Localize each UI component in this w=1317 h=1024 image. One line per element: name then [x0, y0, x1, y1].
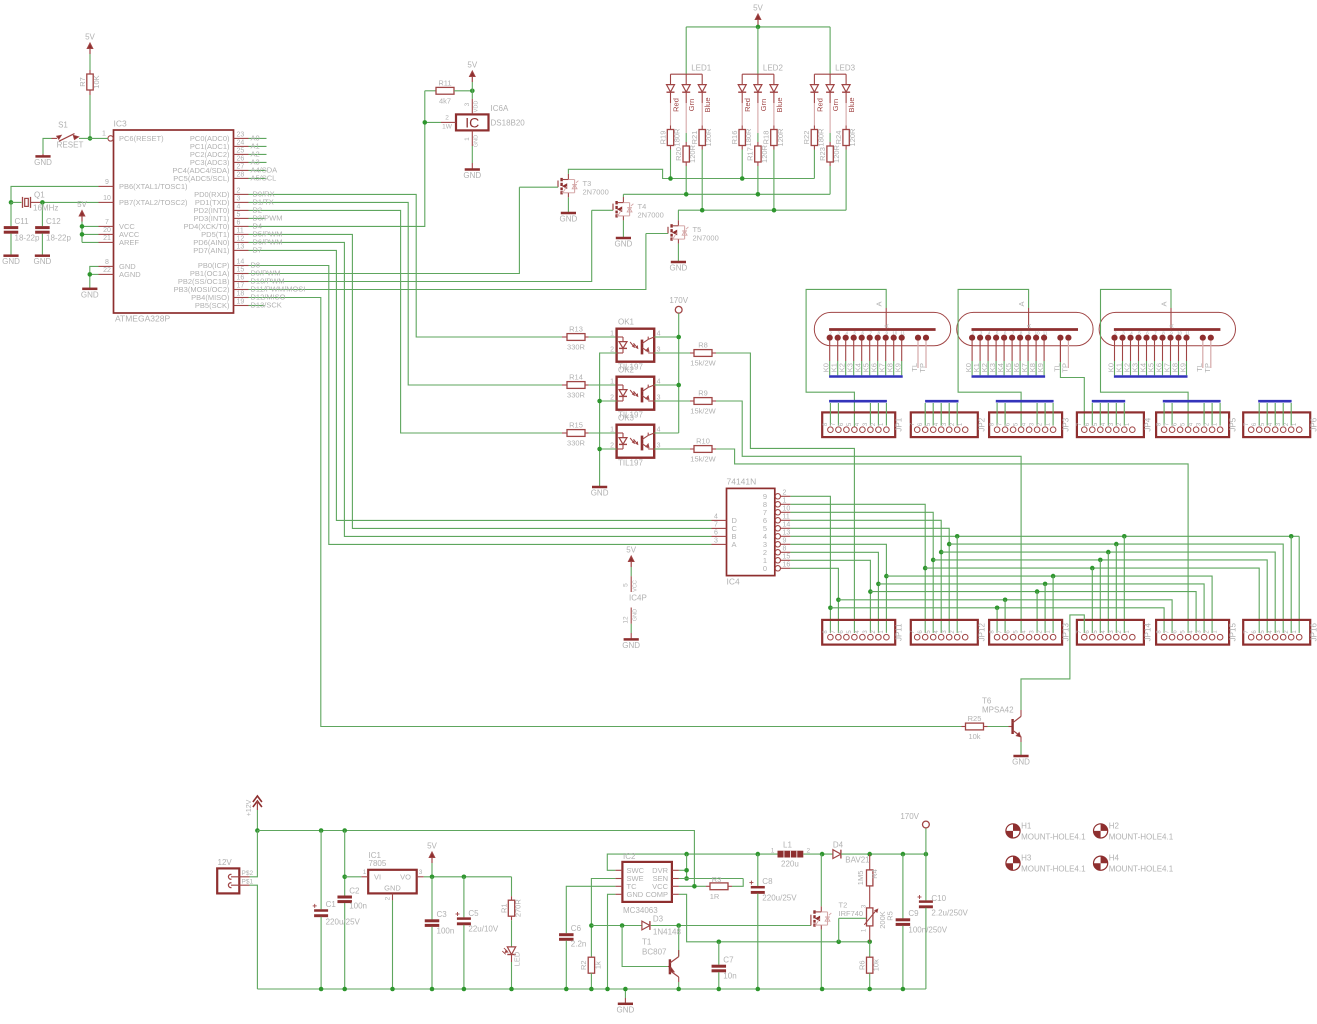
svg-text:Red: Red: [815, 98, 824, 112]
svg-text:1N4148: 1N4148: [653, 928, 682, 937]
wire RESET node to S1: [79, 137, 90, 139]
wire green LED bus to T4: [623, 193, 830, 195]
svg-text:10k: 10k: [872, 959, 881, 971]
svg-text:A: A: [1027, 324, 1033, 328]
svg-text:7805: 7805: [369, 859, 387, 868]
IC voltage regulator IC1 7805: [368, 870, 417, 894]
svg-text:6: 6: [839, 630, 845, 634]
IC3 pin 13 PD7(AIN1) net D7: [234, 249, 249, 251]
svg-text:6: 6: [237, 220, 241, 227]
svg-text:100n/250V: 100n/250V: [908, 926, 947, 935]
svg-text:8: 8: [823, 422, 829, 426]
svg-text:H3: H3: [1021, 854, 1032, 863]
svg-text:3: 3: [861, 904, 867, 908]
wire D9 to T3 gate: [249, 187, 520, 273]
svg-text:JP11: JP11: [895, 623, 904, 641]
bus JP2: [925, 400, 958, 403]
svg-text:3: 3: [942, 630, 948, 634]
svg-text:D7: D7: [253, 246, 263, 255]
wire OK2 pin3 to R9: [654, 400, 690, 402]
svg-text:6: 6: [1004, 331, 1007, 336]
svg-text:2: 2: [610, 394, 614, 401]
svg-text:4: 4: [657, 330, 661, 337]
svg-text:JP2: JP2: [977, 417, 986, 431]
svg-text:7: 7: [1165, 630, 1171, 634]
svg-text:R16: R16: [730, 131, 739, 145]
IC1 pin 3 VO: [417, 876, 424, 878]
svg-text:2: 2: [871, 422, 877, 426]
wire D8 to IC4 A: [249, 266, 712, 545]
ground GND (IC4P): [624, 638, 639, 641]
svg-text:3: 3: [1276, 422, 1282, 426]
svg-text:4: 4: [855, 630, 861, 634]
nixie tube 3 cathode pin K4: [1144, 335, 1149, 340]
svg-text:4: 4: [1101, 422, 1107, 426]
svg-text:6: 6: [918, 422, 924, 426]
svg-text:R6: R6: [858, 960, 867, 970]
svg-text:6: 6: [1173, 630, 1179, 634]
junction C10 top: [924, 852, 929, 857]
IC6A pin 2 1W: [441, 121, 456, 123]
ground GND (S1): [35, 155, 50, 158]
connector 12V input: [217, 868, 239, 893]
svg-text:R19: R19: [658, 131, 667, 145]
svg-text:120R: 120R: [760, 144, 769, 163]
svg-text:4: 4: [1022, 630, 1028, 634]
svg-text:3: 3: [1109, 630, 1115, 634]
mount hole H1: [1013, 824, 1020, 831]
svg-text:R7: R7: [78, 77, 87, 87]
ground GND (C11): [3, 254, 18, 257]
IC2 pin stub left y878.5: [615, 878, 622, 880]
svg-text:C12: C12: [46, 217, 61, 226]
svg-text:1: 1: [363, 869, 367, 876]
connector JP15: [1156, 620, 1229, 645]
connector JP16: [1243, 620, 1310, 645]
nixie tube 1 cathode pin K0: [827, 335, 832, 340]
transistor T5 2N7000: [667, 227, 669, 234]
IC3 pin 8 GND: [99, 265, 114, 267]
crystal Q1 16MHz: [22, 197, 24, 208]
svg-text:R24: R24: [834, 131, 843, 145]
svg-text:COMP: COMP: [646, 890, 669, 899]
svg-text:7: 7: [998, 630, 1004, 634]
svg-text:DS18B20: DS18B20: [491, 119, 526, 128]
wire blue LED bus to T5: [678, 209, 846, 211]
LED power indicator: [511, 920, 513, 947]
svg-text:H4: H4: [1109, 854, 1120, 863]
svg-text:R23: R23: [818, 147, 827, 161]
IC6A pin 3 VDD: [471, 99, 473, 115]
supply 170V port (optos): [675, 306, 682, 313]
power symbol 5V (LEDs): [757, 18, 759, 25]
svg-text:A: A: [1017, 301, 1026, 306]
svg-text:2: 2: [829, 331, 832, 336]
svg-text:5: 5: [1014, 630, 1020, 634]
junction crystal right: [40, 200, 45, 205]
svg-text:5V: 5V: [85, 33, 95, 42]
svg-text:7: 7: [1165, 422, 1171, 426]
IC4 input B pin 6: [712, 535, 727, 537]
junction D3 row T1 branch: [620, 923, 625, 928]
svg-text:C5: C5: [468, 909, 479, 918]
svg-text:R17: R17: [746, 147, 755, 161]
IC4 input D pin 4: [712, 519, 727, 521]
svg-text:Blue: Blue: [703, 97, 712, 112]
svg-text:4: 4: [1268, 630, 1274, 634]
IC4 output 2 pin 8: [775, 550, 780, 555]
svg-text:T1: T1: [642, 938, 652, 947]
IC4 output 1 pin 15: [775, 558, 780, 563]
resistor R15 330R: [562, 432, 567, 434]
svg-text:3: 3: [942, 422, 948, 426]
svg-text:10n: 10n: [723, 972, 736, 981]
nixie tube 2 cathode pin K3: [994, 335, 999, 340]
svg-text:18: 18: [237, 291, 245, 298]
junction 5V/VO: [430, 875, 435, 880]
IC3 pin 23 PC0(ADC0) net A0: [234, 137, 249, 139]
svg-text:1k: 1k: [593, 961, 602, 969]
svg-text:1: 1: [610, 426, 614, 433]
svg-text:5: 5: [1014, 422, 1020, 426]
junction AGND: [88, 272, 93, 277]
wire net D3/PWM stub: [249, 217, 265, 219]
ground GND (C12): [35, 254, 50, 257]
svg-text:GND: GND: [34, 158, 52, 167]
supply 170V port (psu): [925, 828, 927, 854]
ground GND (T3): [561, 212, 576, 215]
bus JP6: [1258, 400, 1291, 403]
svg-text:5V: 5V: [467, 61, 477, 70]
nixie tube 3 cathode pin K6: [1160, 335, 1165, 340]
optocoupler OK3 TIL197: [617, 425, 655, 458]
svg-text:10: 10: [1177, 331, 1183, 336]
wire S1 to GND: [43, 138, 52, 154]
svg-text:3: 3: [1276, 630, 1282, 634]
svg-text:R11: R11: [438, 78, 451, 87]
svg-text:3: 3: [1122, 331, 1125, 336]
svg-text:1: 1: [1213, 422, 1219, 426]
junction LED rail: [756, 25, 761, 30]
nixie tube 1 anode bar: [829, 328, 936, 331]
junction T2 drain: [820, 852, 825, 857]
svg-text:120R: 120R: [704, 128, 713, 147]
bus cathodes tube 3: [1114, 375, 1188, 378]
svg-text:7: 7: [1012, 331, 1015, 336]
nixie tube 3 cathode pin K0: [1112, 335, 1117, 340]
transistor T4 2N7000: [612, 204, 614, 211]
svg-text:1W: 1W: [442, 124, 453, 131]
nixie tube 1 cathode pin K6: [875, 335, 880, 340]
ground GND (psu rail): [624, 989, 626, 998]
IC2 pin stub left y886.3: [615, 885, 622, 887]
diode D3 1N4148: [591, 925, 642, 927]
wires JP6 pins to bus: [1258, 403, 1260, 426]
svg-text:Red: Red: [672, 98, 681, 112]
svg-text:22: 22: [103, 267, 111, 274]
wire D5 to IC4 C: [249, 234, 712, 528]
svg-text:R1: R1: [499, 903, 508, 913]
svg-text:4: 4: [855, 422, 861, 426]
nixie tube 3 anode pin A: [1170, 308, 1172, 330]
svg-text:4: 4: [1130, 331, 1133, 336]
svg-text:5: 5: [1260, 422, 1266, 426]
svg-text:C1: C1: [326, 900, 337, 909]
svg-text:2: 2: [385, 896, 392, 900]
svg-text:C2: C2: [349, 887, 360, 896]
wire R3 to SEN: [732, 879, 743, 887]
svg-text:5: 5: [853, 331, 856, 336]
svg-text:5: 5: [1181, 422, 1187, 426]
ground GND (T5): [671, 261, 686, 264]
nixie tube 2 cathode pin K4: [1002, 335, 1007, 340]
IC boost controller IC2 MC34063 body: [622, 862, 672, 902]
svg-text:ATMEGA328P: ATMEGA328P: [115, 314, 170, 324]
junction grn bus LED2: [756, 192, 761, 197]
svg-text:IRF740: IRF740: [839, 909, 864, 918]
svg-text:3: 3: [980, 331, 983, 336]
IC2 pin stub right y894.3: [672, 893, 679, 895]
svg-text:2N7000: 2N7000: [638, 211, 664, 220]
svg-text:4: 4: [237, 204, 241, 211]
nixie tube 1 cathode pin K9: [899, 335, 904, 340]
wire D4 to 170V node: [841, 853, 926, 855]
svg-text:170V: 170V: [669, 296, 688, 305]
svg-text:4: 4: [657, 426, 661, 433]
nixie tube 2 cathode pin K9: [1042, 335, 1047, 340]
resistor R2 1k: [588, 957, 594, 973]
svg-text:JP5: JP5: [1229, 417, 1238, 431]
nixie tube 1 cathode pin K5: [867, 335, 872, 340]
svg-text:A: A: [1160, 301, 1169, 306]
wires JP1 pins to bus: [829, 403, 831, 426]
svg-text:13: 13: [237, 244, 245, 251]
wire 5V to R7: [89, 54, 91, 70]
wire IC2 GND pin to rail: [608, 894, 616, 989]
junction C5 top: [462, 875, 467, 880]
connector JP6: [1243, 412, 1310, 437]
wire T6 emitter to GND: [1020, 742, 1022, 755]
svg-text:220u/25V: 220u/25V: [762, 894, 797, 903]
svg-text:IC6A: IC6A: [491, 104, 509, 113]
connector JP14: [1077, 620, 1144, 645]
svg-text:22u/10V: 22u/10V: [468, 925, 498, 934]
nixie tube 1 cathode pin K1: [835, 335, 840, 340]
svg-text:170V: 170V: [900, 812, 919, 821]
wire tube 2 TL to JP4 pin 7: [1060, 362, 1084, 426]
nixie tube 2 cathode pin K8: [1034, 335, 1039, 340]
connector JP12: [911, 620, 978, 645]
svg-text:12: 12: [623, 616, 630, 624]
wires JP2 pins to bus: [924, 403, 926, 426]
svg-text:9: 9: [1170, 331, 1173, 336]
IC3 pin 28 PC5(ADC5/SCL) net A5/SCL: [234, 177, 249, 179]
svg-text:2: 2: [950, 422, 956, 426]
junction grn bus LED1: [684, 192, 689, 197]
wire 12V top rail: [257, 831, 694, 887]
svg-text:PB5(SCK): PB5(SCK): [195, 301, 230, 310]
svg-text:2: 2: [1114, 331, 1117, 336]
nixie tube 3 outline: [1099, 312, 1235, 345]
svg-text:R20: R20: [674, 147, 683, 161]
svg-text:IC: IC: [465, 114, 479, 130]
svg-text:5V: 5V: [626, 546, 636, 555]
svg-text:LED2: LED2: [763, 64, 784, 73]
svg-text:4: 4: [1189, 422, 1195, 426]
svg-text:GND: GND: [384, 884, 401, 893]
capacitor C11 18-22p: [10, 202, 12, 226]
junction VCC 12V: [692, 884, 697, 889]
svg-text:1M5: 1M5: [856, 871, 865, 886]
IC4 output 3 pin 9: [775, 542, 780, 547]
wire R8 to JP11 pin5 (anode 1): [716, 353, 854, 633]
svg-text:18-22p: 18-22p: [46, 234, 71, 243]
inductor L1 220u: [778, 851, 804, 858]
nixie tube 2 cathode pin K7: [1026, 335, 1031, 340]
svg-text:5: 5: [926, 422, 932, 426]
svg-text:7: 7: [714, 521, 718, 528]
IC3 pin 19 PB5(SCK) net D13/SCK: [234, 305, 249, 307]
wire D1 to R14: [249, 202, 563, 385]
nixie tube 2 cathode pin K6: [1018, 335, 1023, 340]
svg-text:100n: 100n: [437, 927, 455, 936]
svg-text:220u/25V: 220u/25V: [326, 918, 361, 927]
svg-text:3: 3: [714, 537, 718, 544]
svg-text:6: 6: [1146, 331, 1149, 336]
IC3 pin 17 PB3(MOSI/OC2) net D11/PWM/MOSI: [234, 289, 249, 291]
svg-text:5: 5: [1181, 630, 1187, 634]
svg-text:R15: R15: [569, 421, 583, 430]
LED LED2 Blue diode: [773, 74, 775, 84]
svg-text:JP15: JP15: [1229, 623, 1238, 642]
svg-text:3: 3: [464, 102, 471, 106]
svg-text:MOUNT-HOLE4.1: MOUNT-HOLE4.1: [1109, 865, 1174, 874]
resistor R24 120R: [845, 103, 847, 126]
transistor T1 BC807: [622, 926, 668, 967]
wire net D13/SCK stub: [249, 305, 265, 307]
IC3 pin 7 VCC: [99, 225, 114, 227]
svg-text:4: 4: [988, 331, 991, 336]
svg-text:180R: 180R: [816, 128, 825, 147]
IC ATMEGA328P IC3 body: [114, 130, 234, 313]
svg-text:Red: Red: [743, 98, 752, 112]
svg-text:JP16: JP16: [1310, 623, 1317, 642]
nixie tube 3 cathode pin K7: [1168, 335, 1173, 340]
nixie tube 3 anode bar: [1114, 328, 1221, 331]
svg-text:K9: K9: [1179, 363, 1188, 372]
svg-text:JP1: JP1: [895, 417, 904, 431]
svg-text:2: 2: [610, 442, 614, 449]
svg-text:4k7: 4k7: [439, 96, 451, 105]
svg-text:TIL197: TIL197: [618, 458, 643, 467]
svg-text:10k: 10k: [968, 732, 980, 741]
wire D6 to IC4 B: [249, 242, 712, 536]
svg-text:GND: GND: [591, 489, 609, 498]
wire VCC row: [679, 885, 706, 887]
nixie tube 2 cathode pin K5: [1010, 335, 1015, 340]
svg-text:JP6: JP6: [1310, 417, 1317, 431]
nixie tube 3 pin TP: [1208, 335, 1213, 340]
svg-text:GND: GND: [81, 290, 99, 299]
wire to crystal: [11, 201, 22, 203]
svg-text:9: 9: [105, 179, 109, 186]
svg-text:3: 3: [237, 196, 241, 203]
junction OK2 pin4: [676, 383, 681, 388]
svg-text:C6: C6: [571, 924, 582, 933]
svg-text:A: A: [732, 540, 737, 549]
wire D7 to IC4 D: [249, 250, 712, 520]
svg-text:R13: R13: [569, 325, 583, 334]
svg-text:11: 11: [783, 514, 790, 521]
svg-text:R4: R4: [870, 869, 879, 879]
svg-text:VI: VI: [374, 873, 381, 882]
svg-text:2: 2: [1284, 630, 1290, 634]
svg-text:4: 4: [1268, 422, 1274, 426]
svg-text:4: 4: [1189, 630, 1195, 634]
svg-text:R2: R2: [579, 960, 588, 970]
svg-text:OK1: OK1: [618, 318, 635, 327]
svg-text:2: 2: [871, 630, 877, 634]
connector JP2: [911, 412, 978, 437]
bus JP5: [1163, 400, 1221, 403]
svg-text:3: 3: [1109, 422, 1115, 426]
svg-text:2: 2: [237, 188, 241, 195]
svg-text:6: 6: [1006, 422, 1012, 426]
wire VO 5V rail: [424, 876, 512, 878]
svg-text:4: 4: [657, 378, 661, 385]
resistor R21 120R: [701, 103, 703, 126]
wire +12V to rail: [256, 810, 258, 831]
junction OK1 pin4: [676, 335, 681, 340]
svg-text:H1: H1: [1021, 821, 1032, 830]
junction RESET node: [88, 136, 93, 141]
svg-text:8: 8: [1157, 422, 1163, 426]
svg-text:6: 6: [918, 630, 924, 634]
svg-text:9: 9: [1028, 331, 1031, 336]
wire 170V to opto collectors: [678, 313, 680, 433]
IC1 pin 2 GND: [392, 893, 394, 900]
svg-text:3: 3: [657, 394, 661, 401]
junction C1 top: [319, 828, 324, 833]
svg-text:2: 2: [1205, 422, 1211, 426]
svg-text:3: 3: [863, 630, 869, 634]
svg-text:2: 2: [1038, 422, 1044, 426]
wire crystal to PB7: [31, 201, 43, 203]
LED LED1 Red diode: [670, 74, 672, 84]
junction C2 top: [342, 828, 347, 833]
svg-text:GND: GND: [474, 135, 480, 147]
resistor R10 15k/2W: [690, 448, 694, 450]
IC temperature sensor IC6A DS18B20: [456, 114, 489, 130]
resistor R6 10k: [869, 942, 871, 957]
resistor R17 120R: [757, 103, 759, 133]
svg-text:2: 2: [1117, 422, 1123, 426]
svg-text:19: 19: [237, 299, 245, 306]
svg-text:GND: GND: [617, 1005, 635, 1014]
svg-text:AREF: AREF: [119, 238, 139, 247]
resistor R8 15k/2W: [690, 352, 694, 354]
svg-text:8: 8: [877, 331, 880, 336]
svg-text:2N7000: 2N7000: [693, 234, 719, 243]
svg-text:6: 6: [1085, 630, 1091, 634]
svg-text:+12V: +12V: [246, 799, 253, 816]
svg-text:2: 2: [783, 490, 787, 497]
wire P$2 to 12V rail: [250, 831, 258, 877]
svg-text:1: 1: [783, 498, 787, 505]
svg-text:8: 8: [990, 630, 996, 634]
svg-text:15k/2W: 15k/2W: [690, 359, 716, 368]
svg-text:27: 27: [237, 164, 245, 171]
